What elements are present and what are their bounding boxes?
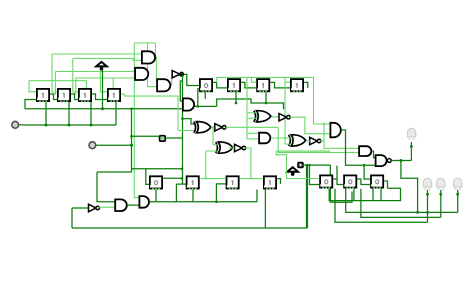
- junction stem LED2: [439, 193, 442, 196]
- wire row2 Q tap bus77: [217, 77, 314, 82]
- wire FF9 bottom drop: [155, 190, 157, 202]
- wire XOR_A in2: [178, 130, 194, 132]
- junction pin2: [130, 144, 133, 147]
- flip-flop FF12 value 1: [264, 176, 276, 189]
- wire G8 out to LED: [391, 160, 411, 162]
- wire pin1 stub: [19, 124, 25, 126]
- wire XOR_D out connector: [306, 140, 310, 142]
- junction x324 top: [323, 123, 325, 125]
- NOT gate N3: [235, 144, 246, 151]
- flip-flop FF9 value 0: [150, 176, 162, 189]
- wire AND3 in2 stub: [148, 86, 158, 88]
- input pin IN1: [12, 121, 19, 128]
- wire XOR_A out connector: [211, 126, 215, 128]
- junction FF10 Q tap: [205, 177, 207, 179]
- wire mesh down right x313: [314, 77, 330, 124]
- wire XOR_C out connector: [272, 116, 279, 118]
- wire FF9 D feed: [146, 169, 149, 185]
- flip-flop FF10 value 1: [187, 176, 199, 189]
- wire mesh E right tap: [87, 81, 96, 94]
- junction stem LED1: [426, 193, 429, 196]
- AND gate G9 bottom-left: [115, 199, 127, 211]
- flip-flop FF14 value 0: [344, 175, 356, 188]
- wire AND1 out to AND3 in1: [154, 57, 158, 81]
- junction FF15 D feed: [363, 164, 366, 167]
- wire XOR_B out: [230, 147, 235, 149]
- wire power P1 down to bus: [102, 69, 104, 109]
- wire NOT1 long vertical: [182, 119, 184, 185]
- wire N4 out: [290, 117, 330, 134]
- wire XOR_C in1: [247, 112, 257, 114]
- wire mesh D drop x113: [112, 78, 114, 88]
- wire FF9 Q tap: [163, 177, 182, 179]
- wire button1 in: [132, 135, 160, 137]
- wire FF13 Q to FF14: [333, 179, 343, 185]
- wire pin2 stub: [96, 144, 131, 146]
- wire NOT1 branch to AND4 in1: [180, 81, 182, 101]
- wire branch down x400: [401, 161, 418, 213]
- flip-flop FF5 value 0: [200, 79, 212, 92]
- wire XOR_C feed vertical: [246, 77, 248, 139]
- wire AND4 out to FF5 clk: [193, 89, 200, 107]
- wire FF12 Q tail: [277, 179, 280, 184]
- wire N3 out to FF_b4 D: [244, 148, 263, 179]
- wire FF1 Q to FF2 clk: [50, 94, 57, 100]
- wire stem1 LED1: [427, 190, 429, 223]
- junction button2 out: [306, 164, 309, 167]
- flip-flop FF11 value 1: [227, 176, 239, 189]
- wire N5 out: [319, 140, 324, 142]
- wire h172 left: [97, 171, 132, 173]
- NOT gate N6 bottom-left: [89, 204, 100, 212]
- flip-flop FF13 value 0: [320, 175, 332, 188]
- wire mesh A to AND1 in1: [52, 53, 142, 55]
- wire FF7 bottom drop: [265, 92, 267, 103]
- junction stem LED3: [456, 193, 459, 196]
- wire row2 staircase: [217, 99, 284, 109]
- wire FF14 drop netA: [353, 189, 355, 201]
- wire button1 out: [166, 137, 183, 139]
- wire stem2 LED2: [440, 190, 442, 218]
- junction bus109 power: [101, 107, 104, 110]
- AND gate G10 bottom-left: [139, 196, 149, 208]
- wire AND4 out to row2 staircase: [193, 105, 217, 107]
- wire AND_mid out to XOR_D in1: [271, 137, 292, 139]
- wire FF2 Q to FF3 clk: [71, 94, 78, 100]
- LED L1: [423, 178, 431, 190]
- flip-flop FF4 value 1: [108, 89, 120, 102]
- flip-flop FF6 value 1: [228, 79, 240, 92]
- wire NOT1 to XOR_A in1: [183, 119, 195, 124]
- flip-flop FF2 value 1: [58, 89, 70, 102]
- wire FF11 clk from bus202: [216, 184, 226, 202]
- wire FF10 Q to FF11 D light: [201, 178, 227, 180]
- wire FF12 clock drop: [264, 190, 266, 229]
- button B2: [298, 163, 303, 168]
- XOR gate X2: [216, 142, 233, 153]
- wire mesh E to FF1 D: [29, 81, 36, 92]
- wire row3 netA: [329, 188, 400, 200]
- junction button2 v2: [308, 164, 310, 166]
- power supply P2: [287, 167, 298, 176]
- AND gate G4: [183, 98, 194, 110]
- wire XOR_B in1: [213, 144, 219, 146]
- LED L0 top: [407, 128, 415, 140]
- wire AND_mid in2: [247, 138, 259, 140]
- junction row2 clk b: [265, 102, 268, 105]
- XOR gate X4: [289, 135, 306, 146]
- AND gate G7: [359, 146, 371, 156]
- flip-flop FF3 value 1: [79, 89, 91, 102]
- junction rst FF3: [90, 124, 93, 127]
- wire bus109 down x131: [131, 109, 133, 172]
- flip-flop FF7 value 1: [257, 79, 269, 92]
- wire G6 out: [342, 130, 375, 165]
- wire FF15 drop netA: [380, 189, 382, 201]
- junction N2 out tap: [212, 126, 214, 128]
- flip-flop FF1 value 1: [37, 89, 49, 102]
- wire x307 down to bus228: [306, 165, 308, 228]
- wire mesh B vertical tap: [73, 58, 78, 92]
- wire G9 out to G10: [128, 204, 139, 206]
- wire x176 to bus202: [175, 184, 177, 202]
- wire netC to LED2: [361, 189, 441, 218]
- wire FF15 drop netA 2: [372, 189, 374, 201]
- wire to AND_E in2: [304, 151, 359, 153]
- wire N6 out: [99, 206, 115, 208]
- junction button1 in: [130, 135, 133, 138]
- wire FF3 Q to FF4 clk: [92, 94, 107, 100]
- junction FF9 Q x182: [181, 177, 184, 180]
- wire FF8 D light drop long: [284, 77, 286, 144]
- wire FF7 D light drop: [252, 77, 257, 82]
- wire AND1 out tap: [155, 43, 157, 57]
- LED L3: [454, 178, 462, 190]
- wire FF1 clk feedback L: [25, 100, 36, 110]
- wire G10 out bus202: [150, 201, 257, 203]
- wire light FF13 D feed: [276, 151, 319, 178]
- wire x324 vertical: [324, 124, 359, 148]
- wire NOT1 out down: [182, 74, 184, 118]
- wire FF15 D feed: [364, 165, 370, 179]
- wire XOR_B in1 feed: [212, 127, 214, 145]
- wire above row3 drop: [336, 166, 338, 179]
- wire mesh D to AND2 in2: [76, 77, 137, 79]
- junction row2 clk a: [235, 102, 238, 105]
- NOT gate N2: [215, 124, 226, 131]
- wire bus228: [72, 227, 307, 229]
- wire FF2 reset drop: [68, 102, 70, 125]
- XOR gate X3: [254, 111, 271, 122]
- wire AND2 out up tap: [147, 43, 149, 87]
- wire bus125: [25, 124, 116, 126]
- junction stem1: [426, 211, 429, 214]
- wire h169 right: [132, 168, 183, 170]
- wire FF8 Q tail: [304, 82, 308, 88]
- flip-flop FF8 value 1: [291, 79, 303, 92]
- wire N2 out down: [278, 127, 303, 152]
- wire button2 out: [303, 164, 330, 166]
- wire FF4 reset drop: [115, 102, 117, 125]
- NOT gate N5: [310, 137, 321, 144]
- junction x182 h169: [181, 168, 184, 171]
- wire FF11 Q to FF12 D light: [240, 178, 263, 180]
- junction stem LED0: [410, 145, 413, 148]
- junction bus202 x216: [215, 201, 218, 204]
- wire FF3 reset drop: [90, 102, 92, 125]
- wire FF4 Q tap: [121, 94, 124, 96]
- AND gate G2: [135, 68, 148, 80]
- wire mesh B to AND1 in2: [73, 58, 142, 60]
- AND gate G5 middle: [259, 133, 270, 144]
- wire mesh D vertical tap: [75, 78, 76, 94]
- wire XOR_B in2 from FF10 Q: [206, 151, 219, 178]
- XOR gate X1: [194, 122, 211, 133]
- NOT gate N1: [172, 71, 184, 78]
- wire FF6 bottom drop: [235, 92, 237, 103]
- junction G8 out: [399, 159, 402, 162]
- AND gate G8: [376, 155, 387, 166]
- wire mesh E horizontal: [29, 80, 87, 82]
- wire FF14 Q to FF15: [357, 179, 370, 185]
- power supply P1: [96, 62, 107, 71]
- LED L2: [437, 178, 445, 190]
- wire AND2 out to AND3 in2: [145, 74, 147, 76]
- wire FF7 Q to FF8 clk: [270, 82, 290, 88]
- wire bus109: [25, 108, 182, 110]
- wire N2 out: [226, 126, 278, 128]
- wire NOT1 out to FF5 D: [184, 74, 200, 85]
- wire AND3 out to NOT1 in: [171, 74, 174, 86]
- wire G7 out: [372, 151, 375, 158]
- AND gate G6 large: [330, 123, 340, 138]
- wire FF5 bottom drop: [204, 92, 206, 99]
- wire FF5 Q to FF6 clk: [213, 82, 227, 88]
- wire x330 down: [330, 165, 352, 202]
- wire FF8 D stub: [285, 81, 290, 83]
- wire AND_mid in1: [247, 132, 259, 134]
- junction rst FF2: [68, 124, 71, 127]
- junction AND4 out: [197, 105, 200, 108]
- junction XOR_D in1 x285: [284, 137, 286, 139]
- wire netC3 to LED3: [346, 189, 458, 213]
- wire light row3 a: [276, 150, 330, 152]
- wire bus228 up: [71, 208, 73, 228]
- wire long light vertical x134: [134, 43, 139, 198]
- wire stem3 LED3: [457, 190, 459, 213]
- wire mesh C to AND2 in1: [56, 71, 137, 73]
- wire FF4 D from mesh: [100, 72, 107, 92]
- wire mesh C vertical tap: [54, 72, 56, 95]
- bubble G8 output: [387, 159, 391, 163]
- wire x97 down to AND_bl1: [97, 172, 115, 202]
- junction bus109 x131: [130, 108, 133, 111]
- AND gate G1: [142, 51, 155, 63]
- wire bus202 up to FF11: [256, 190, 258, 202]
- wire light from FF4 Q down: [124, 96, 178, 130]
- wire FF13 clk from button2 net: [310, 165, 320, 184]
- AND gate G3: [157, 79, 170, 91]
- flip-flop FF15 value 0: [371, 175, 383, 188]
- NOT gate N4: [279, 114, 290, 121]
- junction NOT1 down: [181, 117, 184, 120]
- wire LED0 stem: [410, 142, 412, 161]
- wire FF10 bottom drop: [192, 190, 194, 202]
- wire clk h184: [176, 183, 186, 185]
- junction x417 y212: [416, 211, 419, 214]
- wire AND1 out loop top: [134, 42, 155, 44]
- wire FF6 Q to FF7 clk: [241, 82, 256, 88]
- wire XOR_C in2: [247, 117, 257, 119]
- button B1: [160, 136, 166, 141]
- junction rst FF1: [45, 124, 48, 127]
- wire XOR_D in2: [285, 143, 291, 145]
- wire N6 in: [72, 207, 89, 209]
- wire mesh A vertical tap: [52, 54, 57, 92]
- wire FF1 reset drop: [45, 102, 47, 125]
- wire netB to LED1: [335, 189, 428, 223]
- input pin IN2: [89, 142, 96, 149]
- wire FF15 Q bend: [384, 181, 387, 188]
